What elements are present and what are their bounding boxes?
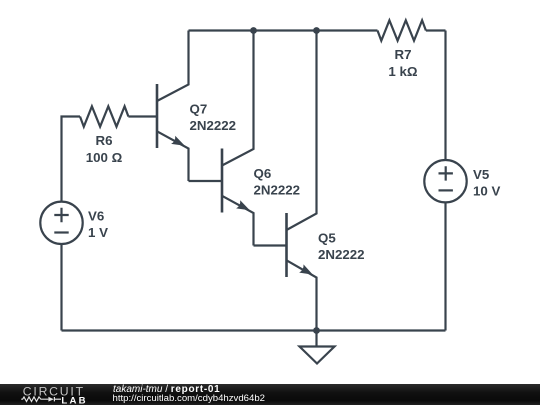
resistor R7 <box>378 20 426 40</box>
wire: bottom rail <box>62 329 446 331</box>
svg-text:10 V: 10 V <box>473 183 500 198</box>
svg-text:Q6: Q6 <box>254 166 272 181</box>
transistor Q7 collector <box>157 31 189 102</box>
transistor Q7 emitter <box>157 131 189 181</box>
transistor Q5 emitter <box>287 260 317 330</box>
wire: left rail upper (V6 plus to R6) <box>62 117 81 202</box>
transistor Q6 base bar <box>221 149 224 213</box>
wire: Q6 emitter to Q5 base <box>254 244 286 246</box>
wire: right rail upper (top wire down to V5 plus terminal) <box>444 31 446 160</box>
ground symbol <box>300 347 335 364</box>
voltage source V5 <box>424 160 466 202</box>
svg-text:LAB: LAB <box>61 395 87 405</box>
transistor Q5 collector <box>287 31 317 231</box>
wire: left rail lower (bottom rail to V6 minus) <box>60 244 62 330</box>
V5 minus sign <box>439 189 453 191</box>
wire: R7 to right rail corner <box>426 29 446 31</box>
svg-text:2N2222: 2N2222 <box>254 182 301 197</box>
footer bar <box>0 384 540 405</box>
wire: top rail from Q7 collector to R7 <box>189 29 378 31</box>
transistor Q7 emitter arrow <box>171 136 185 146</box>
V6 plus sign <box>54 208 68 222</box>
resistor R6 <box>80 106 128 126</box>
transistor Q6 emitter arrow <box>236 200 250 210</box>
svg-text:1 kΩ: 1 kΩ <box>388 64 417 79</box>
wire: right rail lower (V5 minus to bottom rail) <box>444 202 446 330</box>
CircuitLab logo <box>0 383 110 405</box>
svg-text:1 V: 1 V <box>88 225 108 240</box>
svg-text:R6: R6 <box>96 133 113 148</box>
footer text line 2 <box>113 394 266 404</box>
node: junction dot ground / bottom rail <box>313 327 320 334</box>
svg-text:Q5: Q5 <box>318 230 336 245</box>
node: junction dot Q5 collector / top rail <box>313 27 320 34</box>
svg-text:V6: V6 <box>88 208 104 223</box>
svg-text:V5: V5 <box>473 167 490 182</box>
footer text line 1 <box>113 385 220 395</box>
svg-text:2N2222: 2N2222 <box>190 118 237 133</box>
svg-text:100 Ω: 100 Ω <box>86 150 123 165</box>
transistor Q6 collector <box>222 31 254 166</box>
transistor Q5 emitter arrow <box>299 264 313 274</box>
V6 minus sign <box>54 231 68 233</box>
svg-text:Q7: Q7 <box>190 101 208 116</box>
wire: R6 to Q7 base <box>128 115 156 117</box>
voltage source V6 <box>40 202 82 244</box>
svg-text:R7: R7 <box>395 47 412 62</box>
ground stem <box>315 331 317 347</box>
transistor Q7 base bar <box>156 84 159 148</box>
transistor Q5 base bar <box>285 213 288 277</box>
V5 plus sign <box>439 166 453 180</box>
transistor Q6 emitter <box>222 196 254 246</box>
wire: Q7 emitter to Q6 base <box>189 180 222 182</box>
svg-text:2N2222: 2N2222 <box>318 247 365 262</box>
node: junction dot Q6 collector / top rail <box>250 27 257 34</box>
